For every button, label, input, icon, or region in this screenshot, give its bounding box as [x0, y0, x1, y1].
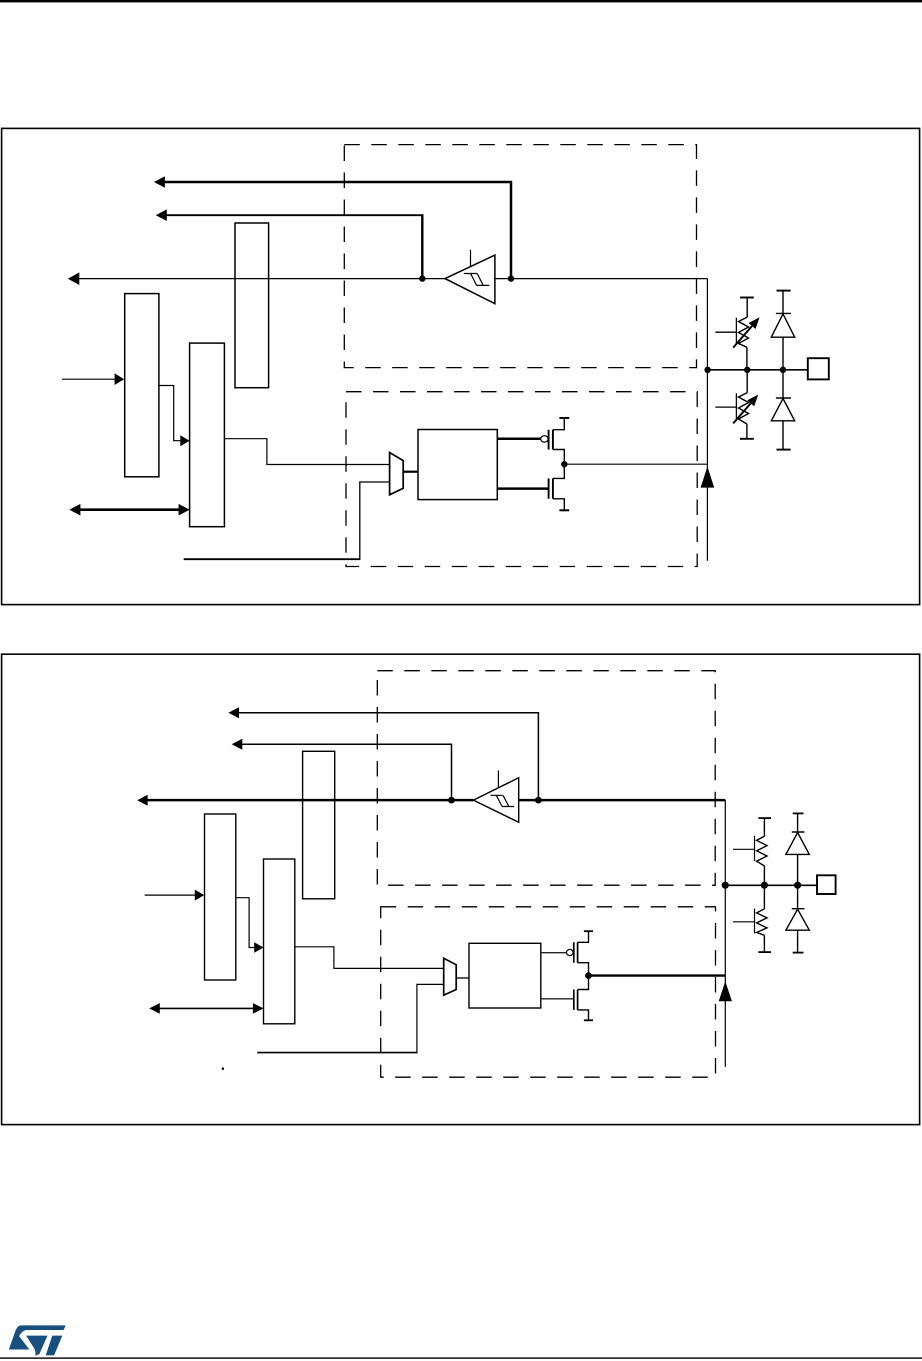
- fig2 pin column vertical wire: [724, 800, 726, 1067]
- fig2 VDD rail: [584, 930, 593, 932]
- fig1 input driver dashed box: [344, 145, 696, 368]
- fig1 U1 enable stub: [470, 250, 472, 267]
- fig1 P-MOS T1: [549, 430, 553, 450]
- fig2 P-MOS gate wire: [541, 952, 567, 954]
- fig1 register block A (input data register): [235, 223, 269, 388]
- fig2 pull-down resistor R4: [757, 885, 767, 952]
- fig2 VDD rail of pull-up: [758, 817, 771, 819]
- fig2 pin node junction: [722, 882, 729, 889]
- fig2 wire block C to multiplexer: [295, 947, 444, 969]
- fig2 protection diode D4: [792, 885, 805, 908]
- fig1 register block C (output data register): [190, 343, 225, 527]
- fig1 pull-up resistor R1: [739, 298, 749, 370]
- bottom page rule: [0, 1357, 922, 1358]
- fig2 multiplexer M2: [444, 958, 457, 995]
- fig1 N-MOS T2: [549, 478, 553, 498]
- fig2 drain junction node: [585, 972, 592, 979]
- fig1 pin node junction: [704, 367, 710, 373]
- fig1 R1 switch bar: [715, 318, 736, 344]
- fig1 wire block C to multiplexer: [224, 439, 389, 465]
- fig2 read/write double arrow: [158, 1007, 254, 1009]
- fig1 main input wire (pin to core, thin): [77, 278, 445, 280]
- fig2 R3 switch bar: [733, 836, 755, 861]
- fig1 TTL Schmitt trigger U1: [445, 255, 495, 304]
- fig2 stray dot artifact: [222, 1068, 224, 1070]
- fig2 mux output wire: [456, 977, 469, 979]
- fig1 up arrow on pin column: [701, 467, 715, 488]
- fig2 wire: second read-back line: [241, 744, 452, 800]
- top page rule: [0, 0, 922, 2]
- fig1 junction node left of Schmitt: [419, 275, 425, 281]
- fig2 R4 switch bar: [733, 909, 755, 934]
- fig2 write arrow into block B: [145, 894, 196, 896]
- fig1 VDD rail: [559, 417, 569, 419]
- fig1 R1 variable arrow: [733, 326, 752, 348]
- figure 1 frame: [2, 128, 920, 604]
- fig2 arrowhead read line: [228, 707, 239, 718]
- fig1 drain junction node: [561, 461, 567, 467]
- fig1 P-MOS gate wire: [497, 438, 540, 441]
- fig2 input driver dashed box: [377, 671, 715, 886]
- fig2 TTL Schmitt trigger U2: [473, 778, 518, 823]
- fig1 VSS rail of pull-down: [740, 438, 754, 440]
- fig1 protection diode D1: [776, 291, 791, 314]
- fig1 R2 variable arrow: [733, 403, 751, 423]
- fig2 N-MOS gate wire: [541, 998, 573, 1000]
- fig2 arrowhead main input wire: [137, 795, 147, 806]
- fig1 alternate function output wire: [184, 558, 360, 560]
- fig1 multiplexer M1: [390, 453, 404, 495]
- fig1 U1 hysteresis glyph: [464, 274, 490, 286]
- fig1 pin column vertical wire: [706, 279, 708, 561]
- fig2 VSS rail of pull-down: [758, 951, 771, 953]
- figure 2 frame: [2, 654, 920, 1124]
- fig2 output wire to pin column (thick): [589, 974, 726, 976]
- fig1 wire: second read-back line: [165, 214, 422, 216]
- fig2 junction at pull resistors: [761, 882, 768, 889]
- fig2 VSS rail of diode D4: [793, 952, 804, 954]
- fig2 U2 hysteresis glyph: [491, 795, 515, 806]
- fig2 I/O pin wire: [725, 884, 817, 886]
- fig1 junction node right of Schmitt: [508, 275, 514, 281]
- fig2 P-MOS T3: [574, 942, 578, 962]
- fig1 wire: read line (top, thick, to input data register): [163, 182, 511, 279]
- fig1 junction at pull resistors: [744, 367, 750, 373]
- fig1 I/O pin wire: [707, 369, 808, 371]
- fig1 output driver dashed box: [346, 392, 697, 567]
- fig2 junction at diodes: [794, 882, 801, 889]
- fig1 R2 switch bar: [715, 393, 736, 419]
- fig1 mux output wire: [403, 471, 418, 473]
- fig2 VDD rail of diode D3: [793, 812, 804, 814]
- fig2 I/O pin pad: [817, 875, 836, 894]
- fig2 wire block B to block C: [236, 898, 255, 948]
- fig2 junction node right of Schmitt: [535, 797, 542, 804]
- fig2 output control block: [469, 943, 541, 1008]
- fig1 protection diode D2: [776, 370, 791, 398]
- fig1 N-MOS gate wire: [497, 487, 548, 490]
- fig2 protection diode D3: [792, 813, 805, 832]
- fig2 register block A (input data register): [303, 751, 335, 899]
- fig1 output wire to pin column: [564, 463, 707, 465]
- fig2 output driver dashed box: [381, 907, 716, 1077]
- fig1 I/O pin pad: [808, 358, 829, 379]
- fig2 main input wire (thick): [147, 799, 474, 802]
- fig1 register block B (write register): [125, 294, 159, 477]
- fig1 pull-down resistor R2: [739, 370, 749, 439]
- fig2 junction node left of Schmitt: [448, 797, 455, 804]
- fig1 output control block: [418, 430, 497, 500]
- fig2 wire: read line: [238, 713, 538, 800]
- fig1 write arrow into block B: [62, 378, 116, 380]
- fig2 alternate function output wire: [257, 1052, 417, 1054]
- fig1 VDD rail of diode D1: [777, 290, 791, 292]
- fig1 read/write double arrow: [79, 508, 181, 511]
- fig1 P-MOS gate bubble: [541, 436, 548, 442]
- fig2 up arrow on pin column: [719, 981, 732, 1001]
- fig1 arrowhead main input wire: [68, 272, 79, 285]
- fig2 P-MOS gate bubble: [567, 949, 574, 955]
- fig2 register block B (write register): [205, 814, 236, 980]
- ST logo: [9, 1325, 66, 1355]
- fig2 arrowhead second line: [232, 739, 243, 750]
- fig1 VSS rail: [559, 509, 569, 511]
- fig2 register block C (output data register): [264, 859, 295, 1024]
- fig1 junction at diodes: [780, 367, 786, 373]
- fig2 U2 enable stub: [497, 771, 499, 788]
- fig1 VDD rail of pull-up: [740, 297, 754, 299]
- fig2 pull-up resistor R3: [757, 818, 767, 885]
- fig2 VSS rail: [584, 1019, 593, 1021]
- fig1 wire block B to block C: [159, 386, 181, 441]
- fig1 arrowhead second line: [156, 209, 167, 221]
- fig2 N-MOS T4: [574, 990, 578, 1010]
- fig1 VSS rail of diode D2: [777, 449, 791, 451]
- fig1 arrowhead read line: [154, 176, 165, 188]
